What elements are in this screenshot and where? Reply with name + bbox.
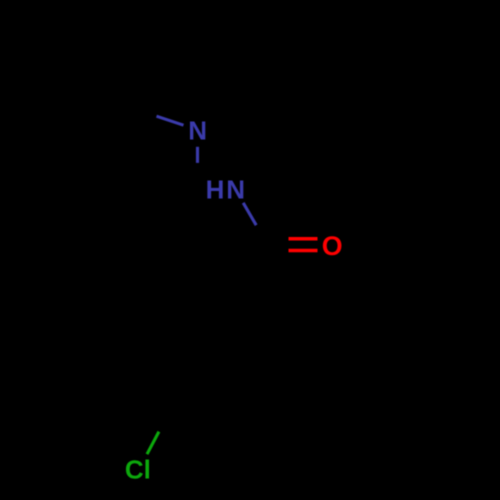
svg-text:N: N bbox=[188, 116, 207, 146]
svg-text:H: H bbox=[206, 175, 225, 205]
bond C-Cl (visible chlorine-side half) bbox=[147, 432, 159, 455]
svg-text:Cl: Cl bbox=[125, 454, 151, 484]
double bond C=O upper line (visible oxygen-side half) bbox=[289, 237, 318, 241]
bond N2-C(=O) (visible nitrogen-side half) bbox=[243, 203, 256, 225]
svg-text:O: O bbox=[322, 231, 343, 261]
bond CH3-N1 (visible nitrogen-side half) bbox=[157, 116, 184, 125]
double bond C=O lower line (visible oxygen-side half) bbox=[289, 249, 318, 253]
svg-text:N: N bbox=[226, 175, 245, 205]
bond N1-C (visible nitrogen-side half, vertical) bbox=[196, 147, 199, 163]
